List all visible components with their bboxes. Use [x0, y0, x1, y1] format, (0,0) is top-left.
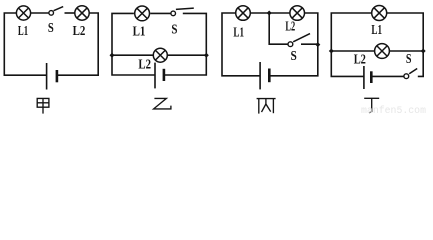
- svg-text:S: S: [48, 21, 54, 36]
- svg-text:L2: L2: [138, 57, 151, 72]
- svg-text:S: S: [406, 52, 412, 67]
- svg-text:L2: L2: [354, 53, 366, 68]
- svg-text:L2: L2: [285, 20, 295, 35]
- svg-text:S: S: [171, 23, 177, 38]
- svg-text:L1: L1: [133, 24, 146, 39]
- svg-text:L1: L1: [371, 23, 382, 38]
- svg-text:manfen5.com: manfen5.com: [361, 105, 426, 115]
- svg-text:L1: L1: [18, 24, 28, 39]
- svg-text:L1: L1: [233, 25, 244, 40]
- svg-text:L2: L2: [73, 24, 86, 39]
- svg-text:S: S: [291, 49, 297, 64]
